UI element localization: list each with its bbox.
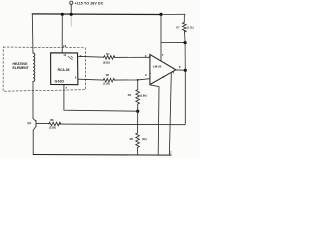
wire: R7 to supply tap [183, 30, 186, 42]
transistor Q1 [33, 119, 49, 131]
wire: R2 to op-amp -in [114, 79, 150, 80]
wire: R1 to op-amp +in [115, 56, 150, 58]
svg-text:R4: R4 [128, 93, 132, 97]
wire: supply tap to R7 node [161, 42, 185, 44]
supply terminal [70, 1, 73, 4]
svg-text:R8: R8 [50, 118, 54, 122]
node: op-amp supply rail dot [159, 13, 162, 16]
wire: output down to base net [184, 70, 187, 124]
wire: base net to output [59, 123, 185, 126]
wire: R4 to gnd node [137, 104, 139, 111]
wire: supply tap to output node [184, 43, 186, 71]
wire: terminal to rail [70, 4, 72, 14]
op-amp U1 [150, 54, 176, 84]
svg-text:LM-25: LM-25 [153, 65, 162, 69]
wire: +V top rail [32, 13, 161, 16]
node: R4 tee dot [137, 79, 139, 81]
svg-text:GND: GND [55, 79, 65, 84]
resistor R2 [103, 78, 114, 82]
svg-text:(1.5k): (1.5k) [103, 82, 110, 86]
svg-text:R7: R7 [176, 25, 180, 29]
resistor R8 [49, 122, 61, 126]
svg-text:RCA-05: RCA-05 [58, 68, 70, 72]
svg-text:Q1: Q1 [27, 121, 31, 125]
wire: coil to Q1 collector [32, 82, 34, 119]
wire: IC pin 3 [78, 55, 104, 58]
node: output dot [184, 69, 187, 72]
IC box [51, 53, 78, 85]
svg-text:−: − [149, 72, 151, 76]
svg-text:(8.2k): (8.2k) [103, 60, 110, 64]
wire: R7 top from rail [183, 14, 185, 22]
node: terminal junction dot [70, 13, 73, 16]
svg-text:(1k): (1k) [142, 137, 147, 141]
wire: IC pin 2 [78, 78, 103, 81]
svg-text:+115 TO 28V DC: +115 TO 28V DC [75, 1, 104, 5]
heating element coil [33, 53, 35, 81]
svg-text:(2.2k): (2.2k) [187, 25, 194, 29]
wire: IC pin 13 from rail [61, 14, 63, 52]
node: IC pin 13 rail dot [61, 13, 64, 16]
wire: op-amp pin 6 drop [169, 73, 171, 155]
svg-text:13: 13 [63, 44, 67, 48]
svg-text:R1: R1 [106, 52, 110, 56]
wire: op-amp output [176, 69, 186, 71]
bottom rail [33, 154, 171, 157]
svg-text:+: + [149, 55, 151, 59]
wire: gnd node down to R6 [137, 111, 139, 133]
svg-text:R2: R2 [106, 73, 110, 77]
svg-text:R6: R6 [130, 137, 134, 141]
resistor R1 [104, 56, 115, 60]
svg-text:(2.2k): (2.2k) [49, 126, 56, 130]
wire: op-amp pin 4 drop [150, 85, 159, 155]
wire: top rail faint segment to R7 corner [161, 13, 185, 15]
node: supply tap dot [184, 41, 187, 44]
node: gnd junction dot [136, 110, 139, 113]
wire: left drop from rail [31, 14, 34, 53]
wire: rail end tick [170, 151, 172, 155]
wire: IC pin 7 gnd [64, 85, 138, 112]
wire: Q1 emitter to bottom rail [32, 130, 34, 154]
wire: op-amp V+ pin from rail [160, 15, 162, 61]
wire: faint stub below terminal dot [70, 16, 72, 27]
wire: R6 to bottom rail [137, 148, 139, 155]
svg-text:(1.8k): (1.8k) [140, 93, 147, 97]
resistor R4 [136, 90, 140, 104]
resistor R7 [182, 22, 186, 32]
resistor R6 [136, 133, 140, 147]
wire: tee down to R4 [137, 80, 139, 90]
IC internal diode mark [68, 56, 72, 59]
dashed enclosure [3, 47, 85, 91]
svg-text:ELEMENT: ELEMENT [13, 66, 30, 70]
